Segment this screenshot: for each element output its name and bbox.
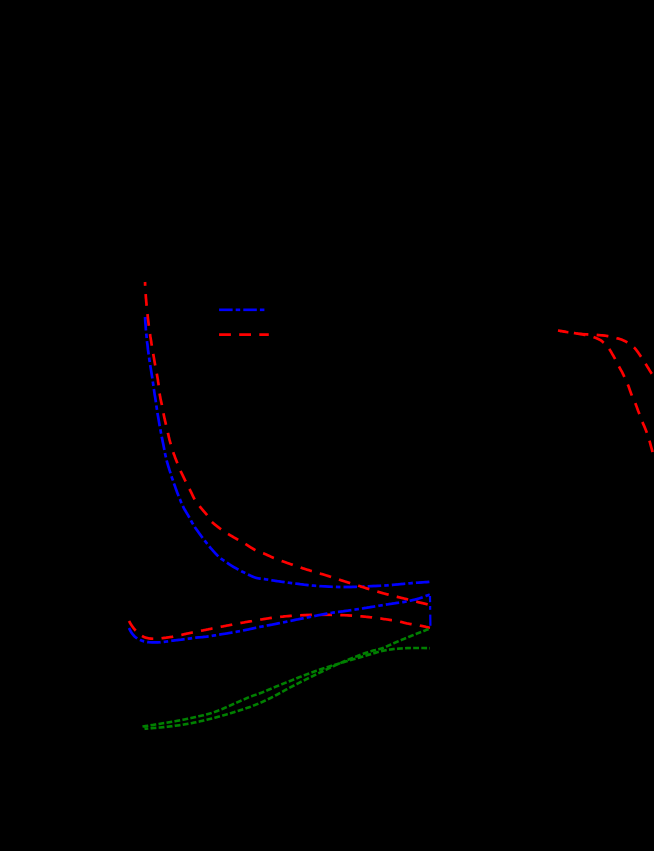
- right red dashed curve 1: [558, 331, 654, 459]
- upper red dashed curve: [145, 282, 430, 605]
- green dotted curve B: [145, 629, 431, 729]
- middle red dashed curve: [129, 615, 430, 639]
- middle blue dash-dot curve: [129, 595, 430, 643]
- green dotted curve A: [143, 648, 431, 727]
- legend red dashed sample: [219, 333, 269, 336]
- legend blue dash-dot sample: [219, 308, 266, 311]
- upper blue dash-dot curve: [145, 317, 430, 587]
- right red dashed curve 2: [560, 331, 654, 378]
- middle blue curve terminal plunge: [429, 596, 432, 626]
